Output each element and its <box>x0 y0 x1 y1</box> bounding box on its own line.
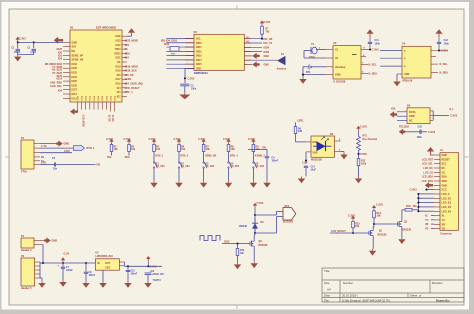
svg-text:LCD_SDA: LCD_SDA <box>422 176 434 179</box>
wire R7 to D2 row1 <box>261 34 263 39</box>
svg-text:BTN_4: BTN_4 <box>230 155 238 158</box>
capacitor C9 <box>85 263 87 272</box>
svg-text:IO25: IO25 <box>72 80 78 83</box>
svg-text:OUT: OUT <box>105 262 111 265</box>
ground under C8 <box>147 281 149 283</box>
antenna E1 <box>244 59 275 61</box>
svg-text:C:5V: C:5V <box>302 161 308 164</box>
svg-text:IO14: IO14 <box>72 93 78 96</box>
svg-text:IOD5: IOD5 <box>264 51 270 54</box>
capacitor C14 <box>304 165 308 167</box>
svg-text:C:3V3: C:3V3 <box>410 189 418 192</box>
resistor R6 <box>178 145 181 152</box>
svg-text:GND: GND <box>72 41 78 44</box>
wire EN net to C4 <box>248 148 267 150</box>
ic D2 right pins <box>244 36 262 52</box>
net labels LCD signals <box>422 158 434 183</box>
ic D4 sensor body <box>407 108 430 124</box>
svg-text:220uF 10V: 220uF 10V <box>152 274 164 276</box>
svg-text:Antenna: Antenna <box>277 67 287 70</box>
svg-text:EN: EN <box>72 50 76 53</box>
svg-text:LED_K2: LED_K2 <box>442 202 452 205</box>
svg-text:ADJ: ADJ <box>105 266 110 269</box>
wire R15 to LCD_BCKLT <box>352 228 354 233</box>
title block <box>322 268 464 302</box>
svg-text:10n: 10n <box>53 167 58 170</box>
svg-text:DIO1: DIO1 <box>196 46 202 49</box>
ic D2 body <box>194 34 244 70</box>
svg-text:1N4148: 1N4148 <box>239 225 248 228</box>
wire R4 to WS2812B DIN <box>295 134 297 142</box>
capacitor C10 <box>127 266 129 270</box>
svg-text:LED_A: LED_A <box>442 193 450 196</box>
svg-text:IO26: IO26 <box>164 44 170 46</box>
svg-text:XR: XR <box>425 223 429 226</box>
svg-text:File:: File: <box>324 298 330 302</box>
regulator U2 output pins <box>119 261 124 263</box>
svg-text:10k: 10k <box>131 148 136 151</box>
svg-text:BM8563ESA: BM8563ESA <box>194 72 208 75</box>
svg-text:YU: YU <box>425 219 429 222</box>
svg-text:C:3V3: C:3V3 <box>106 138 113 141</box>
svg-text:IOC_RX: IOC_RX <box>264 38 273 41</box>
power port C:3V3 top-left <box>17 40 19 43</box>
svg-text:YU: YU <box>442 219 446 222</box>
port arrow into D4 DATA <box>390 112 397 118</box>
svg-text:C:3V3: C:3V3 <box>372 49 380 52</box>
capacitor C4 <box>266 149 268 156</box>
connector P1 body <box>21 140 34 169</box>
svg-text:TXD0: TXD0 <box>115 49 122 51</box>
ground under C9 <box>85 281 87 283</box>
svg-text:Drawn By:: Drawn By: <box>436 298 450 302</box>
ground under C3 <box>184 92 186 94</box>
svg-text:GND: GND <box>264 64 270 67</box>
svg-text:C:5V: C:5V <box>64 253 70 256</box>
svg-text:XL: XL <box>425 215 429 218</box>
svg-text:A4: A4 <box>327 288 331 292</box>
svg-text:BTN_1: BTN_1 <box>87 147 96 150</box>
wire R12 ground <box>358 166 360 177</box>
wire crystal to X2 <box>304 50 311 52</box>
wire to buzzer pin2 <box>255 232 277 234</box>
svg-text:U4: U4 <box>402 42 406 46</box>
svg-text:SCL: SCL <box>125 44 130 47</box>
pullup chain R3 SDA <box>128 142 130 145</box>
svg-text:Revision: Revision <box>432 281 443 285</box>
svg-text:100uF: 100uF <box>66 270 73 272</box>
capacitor C7 <box>62 263 64 267</box>
switch S4 <box>228 162 229 163</box>
ic U1 right pins <box>114 36 127 98</box>
svg-text:10k: 10k <box>206 148 211 151</box>
wire Q1 drain <box>372 227 374 229</box>
svg-text:ESP WROOM32: ESP WROOM32 <box>96 25 116 29</box>
switch S1 <box>153 162 154 163</box>
svg-text:D2: D2 <box>194 30 198 34</box>
svg-text:Sheet of: Sheet of <box>410 294 421 298</box>
svg-text:Date:: Date: <box>324 294 331 298</box>
power port C:3V3 thermistor <box>358 129 360 132</box>
connector J1 LCD body <box>440 153 459 231</box>
connector P5 pins <box>35 262 40 278</box>
svg-text:KAMB_2: KAMB_2 <box>255 155 266 158</box>
svg-text:100nF: 100nF <box>131 273 138 275</box>
svg-text:GND: GND <box>442 184 448 187</box>
svg-text:100nF: 100nF <box>272 160 279 162</box>
svg-text:GND: GND <box>264 55 270 58</box>
svg-text:10k: 10k <box>413 205 418 208</box>
connector P4 body <box>21 238 34 248</box>
wire Q1 source ground <box>372 237 374 249</box>
svg-text:100n: 100n <box>375 42 381 45</box>
svg-text:R16: R16 <box>406 205 411 208</box>
svg-text:C:3V3: C:3V3 <box>257 202 264 205</box>
svg-text:DIO2: DIO2 <box>196 50 202 53</box>
svg-text:BTN_2: BTN_2 <box>181 155 189 158</box>
wire crystal to X1 <box>316 49 326 51</box>
wire P1 gnd row <box>40 143 57 145</box>
svg-text:SCL: SCL <box>442 163 447 166</box>
led cathode bus <box>417 194 419 211</box>
wire R16 to cathode bus <box>412 209 418 211</box>
wire caps to ground <box>17 51 19 54</box>
svg-text:GND: GND <box>409 115 415 118</box>
svg-text:C:3V3: C:3V3 <box>198 138 205 141</box>
svg-text:C15: C15 <box>418 126 423 129</box>
resistor R14 <box>373 211 376 218</box>
svg-text:C:3V3: C:3V3 <box>19 38 26 41</box>
capacitor C15 series <box>399 129 405 135</box>
wire S1 to ground <box>153 168 155 181</box>
svg-text:RESET: RESET <box>442 158 451 161</box>
svg-text:C:3V3: C:3V3 <box>376 204 383 207</box>
svg-text:IO27: IO27 <box>72 89 78 92</box>
net labels left of U1 <box>45 48 63 93</box>
svg-text:D1: D1 <box>70 25 74 29</box>
svg-text:C:3V3: C:3V3 <box>360 126 367 129</box>
crystal Y1 at D2 <box>170 47 179 52</box>
svg-text:IO17: IO17 <box>116 79 122 81</box>
svg-text:Size: Size <box>324 281 330 285</box>
svg-text:Header 2: Header 2 <box>21 249 32 252</box>
regulator U2 body <box>95 259 119 270</box>
wire R13 ground <box>237 256 239 263</box>
net label BTN_4 <box>228 152 230 162</box>
svg-text:10k: 10k <box>181 148 186 151</box>
svg-text:10k: 10k <box>231 148 236 151</box>
svg-text:DATA: DATA <box>409 111 416 114</box>
svg-text:SCL: SCL <box>196 38 201 41</box>
ground under C7 <box>62 280 64 282</box>
ic U3 pin labels <box>326 49 346 77</box>
svg-text:C:3V3: C:3V3 <box>150 265 157 268</box>
wire P1 rx row <box>40 152 72 154</box>
wire U2 out bus <box>125 265 162 267</box>
svg-text:C:3V3: C:3V3 <box>174 138 181 141</box>
ic U4 right pins <box>431 56 436 58</box>
ground under C14 <box>301 177 303 179</box>
connector P4 pins <box>34 240 45 242</box>
svg-text:N_SCL: N_SCL <box>440 63 449 66</box>
button chain S2 power <box>178 142 180 145</box>
svg-text:AT85L08: AT85L08 <box>402 79 413 82</box>
svg-text:N_SDA: N_SDA <box>369 72 378 75</box>
svg-text:VDD: VDD <box>313 153 318 155</box>
ground under U4 <box>396 80 398 82</box>
ic U3 dash mark <box>352 54 357 56</box>
ground under S4 <box>228 181 230 183</box>
wire VDD down to C14 <box>305 152 307 164</box>
wire battery minus to ground <box>303 66 309 68</box>
ic U1 left pins <box>63 41 83 100</box>
svg-text:IOC_TX: IOC_TX <box>264 42 273 45</box>
svg-text:SCL: SCL <box>107 156 112 159</box>
wire thermistor junction IO36 <box>358 152 360 159</box>
ground under S5 <box>252 181 254 183</box>
button chain S4 power <box>228 142 230 145</box>
svg-text:100n: 100n <box>417 136 423 139</box>
svg-text:IO23_MOSI: IO23_MOSI <box>125 40 139 43</box>
wire Q2 drain to R16 <box>401 210 403 220</box>
svg-text:TS_064: TS_064 <box>205 165 214 168</box>
svg-text:GND: GND <box>64 143 70 146</box>
svg-text:U3: U3 <box>333 41 337 45</box>
svg-text:RXD0: RXD0 <box>114 53 121 55</box>
wire Q3 drain up <box>253 235 255 240</box>
svg-text:IO19_MISO: IO19_MISO <box>125 65 138 68</box>
svg-text:FTDI: FTDI <box>21 171 27 174</box>
border zone ticks <box>236 5 238 9</box>
connector P5 body <box>21 258 35 286</box>
ground under C10 <box>127 281 129 283</box>
port BTN_1 blue <box>74 146 85 151</box>
svg-text:XR: XR <box>442 223 446 226</box>
svg-text:GND: GND <box>115 36 120 38</box>
svg-text:R13: R13 <box>240 250 245 252</box>
wire buzzer power rail <box>254 209 256 234</box>
resistor R7 <box>202 145 205 152</box>
svg-text:IO4: IO4 <box>125 57 130 60</box>
svg-text:LCD_CS: LCD_CS <box>423 171 433 174</box>
svg-text:TS_064: TS_064 <box>181 165 190 168</box>
pullup chain R2 SCL <box>111 142 113 145</box>
ground under P5 <box>41 281 43 283</box>
resistor R13 <box>237 244 239 249</box>
svg-text:GND: GND <box>442 154 448 157</box>
gnd port at J1 pin8 <box>425 183 433 189</box>
regulator U2 gnd pin <box>102 270 104 281</box>
svg-text:YD: YD <box>442 228 446 231</box>
wire C4 to ground <box>266 158 268 181</box>
port LCD_MOSI under U1 <box>70 109 78 115</box>
gnd port at P4 <box>45 238 51 244</box>
svg-text:GND: GND <box>52 240 58 243</box>
wire D2 VDD down <box>185 67 194 69</box>
svg-text:DIN: DIN <box>313 142 317 144</box>
ic LED5 WS2812B body <box>311 136 335 157</box>
svg-text:LCD_SDO: LCD_SDO <box>422 180 434 183</box>
svg-text:IO22: IO22 <box>116 45 122 47</box>
gnd port right of D2 a <box>244 55 252 57</box>
battery BT1 <box>308 65 310 70</box>
diode D6 1N4148 <box>252 223 258 228</box>
wire P5 pins join <box>39 262 41 278</box>
ic U3 right pins <box>361 56 366 58</box>
svg-text:IO19: IO19 <box>116 66 122 68</box>
wire battery to Vbackup <box>311 66 326 68</box>
svg-text:IO_D6: IO_D6 <box>111 115 113 122</box>
wire P4 pin2 down to bus <box>42 245 44 264</box>
svg-text:IRQ IOA_DIO1: IRQ IOA_DIO1 <box>161 40 178 43</box>
svg-text:BSS138: BSS138 <box>259 244 269 247</box>
svg-text:100n: 100n <box>191 88 197 90</box>
wire P1 tx row with port <box>40 147 74 149</box>
ground under U3 <box>302 77 304 79</box>
gnd port right of D2 b <box>244 64 252 66</box>
svg-text:IO_D5: IO_D5 <box>107 115 109 122</box>
svg-text:GND: GND <box>335 74 341 77</box>
svg-text:IO14: IO14 <box>57 78 63 81</box>
svg-text:LCD_DC: LCD_DC <box>423 167 433 170</box>
svg-text:IO33: IO33 <box>72 76 78 79</box>
power port C:3V3 output <box>147 259 149 262</box>
svg-text:IN: IN <box>97 262 100 265</box>
svg-text:Header 5: Header 5 <box>21 287 32 290</box>
svg-text:C:3V3: C:3V3 <box>149 138 156 141</box>
ic D2 left pins <box>166 38 202 71</box>
resistor R15 <box>352 221 355 227</box>
ic LED5 pins <box>335 140 341 142</box>
svg-text:LED5: LED5 <box>125 78 132 81</box>
ic U3 vcc pin wire <box>361 49 370 51</box>
svg-text:YD: YD <box>425 227 429 230</box>
svg-text:IO16: IO16 <box>116 84 122 86</box>
svg-text:SDA: SDA <box>125 156 130 159</box>
svg-text:BTN_1: BTN_1 <box>156 155 164 158</box>
wire Q3 source ground <box>253 248 255 262</box>
ic U4 left pins <box>380 50 406 69</box>
ic U3 body <box>333 46 361 79</box>
svg-text:Po: Po <box>125 48 129 51</box>
svg-text:Connector: Connector <box>440 232 452 235</box>
svg-text:100nF: 100nF <box>89 275 96 277</box>
ground right of LED5 <box>343 153 345 155</box>
svg-text:DIO4: DIO4 <box>196 59 202 62</box>
svg-text:10uF: 10uF <box>311 169 317 171</box>
svg-text:R12: R12 <box>361 161 366 163</box>
svg-text:DIO3: DIO3 <box>196 55 202 58</box>
svg-text:LMS1585A-3V3: LMS1585A-3V3 <box>95 255 113 258</box>
svg-text:IO4: IO4 <box>58 90 63 93</box>
svg-text:IO18_SCK: IO18_SCK <box>125 70 137 73</box>
ground under S1 <box>153 181 155 183</box>
svg-text:LED1: LED1 <box>297 120 304 123</box>
button chain S5 power <box>252 142 254 145</box>
svg-text:10k: 10k <box>156 148 161 151</box>
led symbol inside WS2812B <box>317 141 326 151</box>
svg-text:N_SCL: N_SCL <box>369 64 378 67</box>
svg-text:IOA_DIOR_IRQ: IOA_DIOR_IRQ <box>125 83 143 86</box>
svg-text:SENS_VN: SENS_VN <box>72 59 84 62</box>
svg-text:EN: EN <box>263 146 267 149</box>
net labels right of U1 <box>125 40 143 95</box>
svg-text:WS2812B: WS2812B <box>311 159 322 162</box>
svg-text:C:TX: C:TX <box>41 145 47 148</box>
wire C14 ground <box>305 168 307 177</box>
svg-text:BSS138: BSS138 <box>378 233 388 236</box>
svg-text:NC: NC <box>117 62 121 64</box>
svg-text:UAD_SCL: UAD_SCL <box>50 85 62 88</box>
transistor Q1 BSS138 <box>368 231 370 235</box>
svg-text:10k: 10k <box>114 148 119 151</box>
svg-text:IO36: IO36 <box>362 153 368 156</box>
svg-text:C:3V3: C:3V3 <box>428 131 436 134</box>
ic D4 right pins join <box>430 111 433 121</box>
wire S5 to ground <box>252 168 254 181</box>
svg-text:TS_064: TS_064 <box>156 165 165 168</box>
svg-text:RTC_1: RTC_1 <box>125 91 134 94</box>
ic U4 body <box>402 46 431 78</box>
resistor R5 <box>153 145 156 152</box>
ground under R12 <box>358 177 360 179</box>
svg-text:IOA: IOA <box>391 108 396 111</box>
svg-text:XL: XL <box>442 215 446 218</box>
ground under Q3 <box>253 261 255 263</box>
svg-text:LCD_BCKLT: LCD_BCKLT <box>125 87 140 90</box>
wire C3 to ground <box>184 86 186 92</box>
svg-text:CS: CS <box>442 171 446 174</box>
svg-text:3V3: 3V3 <box>72 46 77 49</box>
svg-text:SDA: SDA <box>442 176 447 179</box>
wire gate buzzer mosfet <box>222 243 250 245</box>
svg-text:IOD4: IOD4 <box>264 47 270 50</box>
svg-text:LED_K3: LED_K3 <box>442 206 452 209</box>
svg-text:D:\My Designs\..\ESP WROOM-32: D:\My Designs\..\ESP WROOM-32 TK\.. <box>342 298 392 302</box>
ic U1 bottom pins <box>77 95 116 111</box>
wire R14 to gate node <box>373 218 375 227</box>
power port C:5V <box>62 260 64 263</box>
svg-text:LCD_BCKLT: LCD_BCKLT <box>331 230 346 233</box>
ground under Q2 <box>401 237 403 239</box>
svg-text:1A: 1A <box>246 40 249 43</box>
svg-text:100k: 100k <box>361 164 367 166</box>
net label KAMB_2 <box>252 152 254 162</box>
svg-text:SENS_VN: SENS_VN <box>205 155 216 158</box>
button chain S3 power <box>203 142 205 145</box>
svg-text:LCD_MOSI: LCD_MOSI <box>82 115 84 127</box>
svg-text:C:3V3: C:3V3 <box>248 138 255 141</box>
power port C:3V3 at R15 <box>352 219 354 222</box>
resistor R16 <box>405 209 412 212</box>
touch net labels <box>425 215 434 231</box>
gnd arrow up at J1 pin1 <box>430 154 434 156</box>
wire DO pin to ground <box>341 151 345 153</box>
svg-text:TS_064: TS_064 <box>255 165 264 168</box>
transistor Q3 BSS138 <box>249 241 251 245</box>
capacitor C3 <box>180 83 189 85</box>
svg-text:LCD_RST: LCD_RST <box>422 158 434 161</box>
ground under Q1 <box>372 249 374 251</box>
svg-text:U_DS1338: U_DS1338 <box>333 81 346 84</box>
svg-text:C:3V3: C:3V3 <box>264 21 271 24</box>
svg-text:RTL2302: RTL2302 <box>399 126 410 129</box>
svg-text:DIO5: DIO5 <box>196 63 202 66</box>
ground top-left <box>17 55 19 57</box>
svg-text:SENS_VP: SENS_VP <box>72 54 84 57</box>
svg-text:IO18: IO18 <box>116 71 122 73</box>
net label BTN_1 <box>153 152 155 162</box>
